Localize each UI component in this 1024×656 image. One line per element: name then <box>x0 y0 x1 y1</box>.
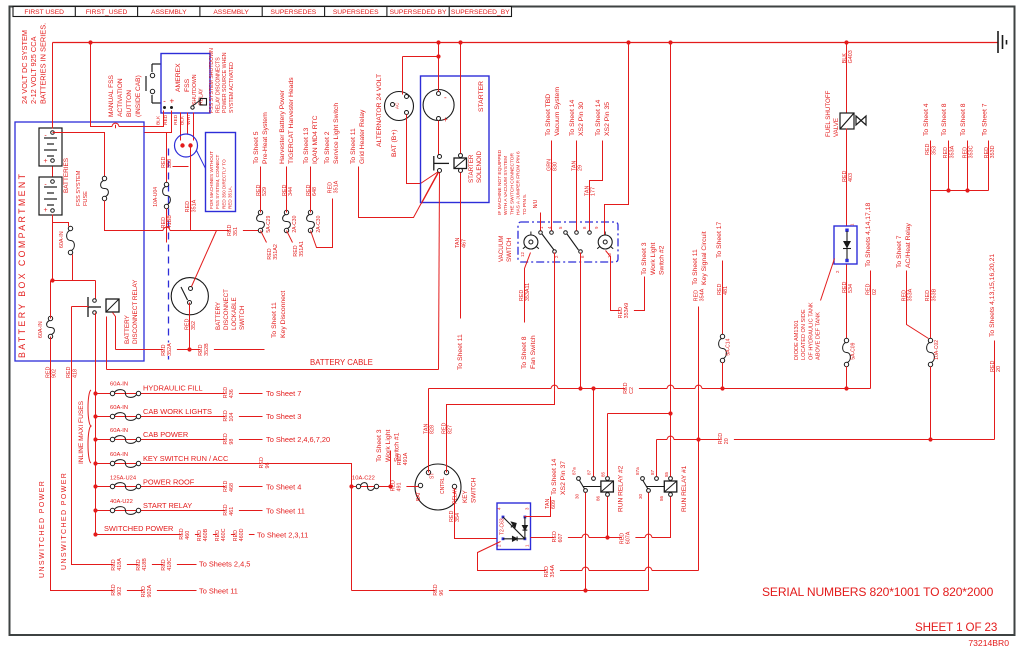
svg-text:ACTIVATION: ACTIVATION <box>117 78 124 117</box>
svg-text:RED: RED <box>179 528 185 539</box>
svg-text:BAT: BAT <box>416 492 422 501</box>
svg-text:RED: RED <box>185 319 191 330</box>
wire key signal vertical <box>698 307 700 571</box>
svg-text:5A-C14: 5A-C14 <box>725 338 731 355</box>
svg-text:To Sheet TBD: To Sheet TBD <box>545 94 552 136</box>
wire RED C2 bus <box>429 388 871 390</box>
wire RED 354A bus <box>478 542 699 571</box>
svg-text:125A-U24: 125A-U24 <box>110 476 137 482</box>
wire RED 353C <box>967 141 969 191</box>
svg-text:SHEET 1 OF 23: SHEET 1 OF 23 <box>915 621 997 634</box>
label unswitched power 1 <box>39 480 46 578</box>
svg-text:IQAN MD4 RTC: IQAN MD4 RTC <box>312 115 319 164</box>
wire TAN 609 <box>525 497 551 517</box>
label to sheet 17 <box>716 222 723 258</box>
svg-text:RED: RED <box>259 457 265 468</box>
wire RED 351A to service light <box>311 199 333 248</box>
svg-text:10A-C02: 10A-C02 <box>934 340 940 360</box>
label RED 352B <box>200 343 214 356</box>
wire bus to relay1 85 <box>670 43 672 477</box>
svg-text:RED: RED <box>984 147 990 158</box>
svg-text:+: + <box>43 158 47 165</box>
junction 5A-C09 <box>844 386 848 390</box>
wire RED 607 bus to relay1 86 <box>531 497 671 538</box>
svg-text:HAS A JUMPER FROM PIN 6: HAS A JUMPER FROM PIN 6 <box>516 151 522 215</box>
vacuum switch rotor x=605.2 <box>598 235 612 249</box>
svg-text:UNSWITCHED POWER: UNSWITCHED POWER <box>39 480 46 578</box>
label to sheet3 work light 1 <box>376 429 401 462</box>
svg-text:87a: 87a <box>571 467 576 475</box>
wire FSS RED out <box>180 113 182 141</box>
svg-text:To Sheets 4,13,15,16,20,21: To Sheets 4,13,15,16,20,21 <box>989 254 996 337</box>
svg-text:60A-IN: 60A-IN <box>110 382 128 388</box>
key pin RELAY <box>452 484 456 488</box>
wire valve to diode <box>846 129 848 227</box>
relay RUN RELAY #2 K3 <box>584 489 588 493</box>
fuse 5A-C09 <box>844 338 848 342</box>
switched power row <box>93 532 97 536</box>
svg-text:RED: RED <box>306 185 312 196</box>
label GRN 830 <box>546 159 558 171</box>
fuse 5A-C29 x=261 <box>258 210 262 214</box>
svg-text:85: 85 <box>664 471 669 477</box>
vacuum switch rotor x=530.9 <box>524 235 538 249</box>
svg-text:RED: RED <box>111 559 117 570</box>
note diode am1301 <box>794 302 822 360</box>
svg-text:CNTRL: CNTRL <box>440 477 446 494</box>
wire C2 to relay2 87 <box>593 389 595 477</box>
label TAN 29 <box>572 161 584 171</box>
svg-text:TAN: TAN <box>545 499 551 509</box>
svg-text:TO PIN 5.: TO PIN 5. <box>522 194 528 215</box>
wire RED 827 CNTRL to vacuum pin2 <box>447 253 555 473</box>
svg-text:351A1: 351A1 <box>299 241 305 257</box>
svg-text:73214BR0: 73214BR0 <box>968 638 1009 648</box>
svg-text:RED: RED <box>842 282 848 293</box>
svg-text:To Sheet 2,4,6,7,20: To Sheet 2,4,6,7,20 <box>266 435 330 444</box>
wire RED 344 <box>286 167 288 213</box>
wire RED 529 <box>260 167 262 213</box>
wire solenoid to battery cable <box>439 173 440 370</box>
svg-text:RED: RED <box>161 157 167 168</box>
svg-text:RED: RED <box>293 245 299 256</box>
label inline maxi fuses <box>78 400 85 464</box>
pin number 8 <box>582 226 587 229</box>
pin number 12 <box>520 252 525 257</box>
svg-text:RUN RELAY #1: RUN RELAY #1 <box>681 465 688 512</box>
wire relay2 coil 86 to RED607 <box>607 497 609 538</box>
wire B+ to starter solenoid <box>407 131 439 184</box>
svg-text:96: 96 <box>439 590 445 596</box>
svg-text:Fan Switch: Fan Switch <box>530 335 537 369</box>
svg-text:RED: RED <box>173 114 179 125</box>
label RED 491 <box>393 482 407 492</box>
wire bus to starter - <box>438 43 440 92</box>
label RED 352A <box>163 343 177 356</box>
wire vacuum pin6 down <box>580 253 582 389</box>
wire switched power <box>96 534 255 536</box>
svg-text:828: 828 <box>430 425 436 434</box>
svg-text:607: 607 <box>558 534 564 543</box>
label RED 902 <box>45 367 57 378</box>
wire B+ down <box>406 115 408 131</box>
svg-text:FUSE: FUSE <box>83 191 89 206</box>
key pin ST <box>426 470 430 474</box>
label harvester battery power <box>279 77 295 164</box>
fss shutdown relay contact <box>200 99 207 106</box>
label lockable switch <box>215 289 246 330</box>
svg-text:529: 529 <box>262 187 268 196</box>
svg-text:FSS SYSTEM SHUTDOWN: FSS SYSTEM SHUTDOWN <box>209 48 215 113</box>
svg-text:SERIAL NUMBERS 820*1001 TO 820: SERIAL NUMBERS 820*1001 TO 820*2000 <box>762 585 994 599</box>
label to sheet 11 key signal <box>692 231 708 285</box>
battery disconnect relay K1 <box>88 297 101 317</box>
label BAT <box>416 492 422 501</box>
svg-text:87: 87 <box>586 469 591 475</box>
svg-text:OF HYDRAULIC TANK: OF HYDRAULIC TANK <box>808 302 814 360</box>
label RED 827 <box>441 423 453 434</box>
svg-text:RED: RED <box>233 530 239 541</box>
wire relay to RED418 <box>72 306 89 308</box>
svg-text:418C: 418C <box>167 558 173 571</box>
svg-text:GRN: GRN <box>546 159 552 171</box>
diode pin 1 <box>525 544 530 547</box>
svg-text:827: 827 <box>448 425 454 434</box>
svg-text:RED: RED <box>842 171 848 182</box>
svg-text:SUPERSEDED_BY: SUPERSEDED_BY <box>451 9 510 16</box>
svg-text:To Sheet 4: To Sheet 4 <box>923 103 930 136</box>
svg-text:460B: 460B <box>203 528 209 541</box>
wire RED 353B down <box>930 191 932 339</box>
vacuum switch pin top x=576.7 <box>575 231 579 235</box>
label amerex fss <box>175 63 191 92</box>
svg-text:177: 177 <box>591 187 597 196</box>
svg-text:+: + <box>169 97 174 106</box>
svg-text:RED: RED <box>925 144 931 155</box>
junction RED 20 <box>928 437 932 441</box>
wire RED 353D <box>988 141 990 191</box>
svg-text:To Sheet 7: To Sheet 7 <box>266 389 301 398</box>
svg-text:To Sheets 2,4,5: To Sheets 2,4,5 <box>199 560 250 569</box>
junction bus x=628 <box>626 40 630 44</box>
svg-text:To Sheet 4: To Sheet 4 <box>266 483 301 492</box>
label battery disconnect relay <box>124 279 139 344</box>
svg-text:THE SWITCH CONNECTOR: THE SWITCH CONNECTOR <box>509 152 515 215</box>
label RED 353A acheat <box>901 288 913 301</box>
svg-text:351A2: 351A2 <box>273 244 279 260</box>
svg-text:LOCATED ON SIDE: LOCATED ON SIDE <box>801 309 807 360</box>
wire RED 353 <box>930 141 932 191</box>
svg-text:353A: 353A <box>949 145 955 158</box>
pin number 4 <box>547 226 552 229</box>
svg-text:2A-C30: 2A-C30 <box>316 215 322 232</box>
svg-text:RED: RED <box>141 586 147 597</box>
svg-text:To Sheet 8: To Sheet 8 <box>941 103 948 136</box>
label RED 351 <box>229 226 243 236</box>
svg-text:60A-IN: 60A-IN <box>110 428 128 434</box>
svg-text:85: 85 <box>600 471 605 477</box>
wire TAN 467 down <box>460 173 462 319</box>
svg-text:351: 351 <box>233 227 239 236</box>
svg-text:RED 351A.: RED 351A. <box>228 186 233 209</box>
label to sheet 11 tan467 <box>457 334 464 370</box>
wire RED 353A9 <box>606 251 645 311</box>
svg-text:353A9: 353A9 <box>624 303 630 319</box>
fuse row KEY SWITCH RUN / ACC <box>93 461 97 465</box>
starter motor M1 <box>423 90 454 121</box>
wire fuse to C2 <box>722 363 724 389</box>
wire grid heater to solenoid <box>359 167 439 218</box>
svg-text:30: 30 <box>574 493 579 499</box>
svg-text:ST: ST <box>430 473 436 479</box>
label To Sheet 4 <box>923 103 930 136</box>
wire bus to solenoid coil <box>460 43 462 154</box>
svg-text:To Sheet 14: To Sheet 14 <box>551 459 558 495</box>
label RED 436 <box>225 388 239 398</box>
junction vacuum pin6 <box>578 386 582 390</box>
battery B2 <box>39 177 62 215</box>
stub RED 491A <box>390 451 392 487</box>
label TAN 828 <box>424 424 436 434</box>
svg-text:RED: RED <box>111 584 117 595</box>
svg-text:RED: RED <box>327 182 333 193</box>
label starter <box>478 81 485 112</box>
fuse row START RELAY <box>93 508 97 512</box>
svg-text:10A-U04: 10A-U04 <box>153 187 159 207</box>
svg-text:XS2 Pin 35: XS2 Pin 35 <box>604 102 611 136</box>
wire branch to 60A-IN fuse <box>53 223 69 227</box>
label RED 351A1 <box>293 241 305 257</box>
svg-text:CAB POWER: CAB POWER <box>143 430 188 439</box>
wire starter + to solenoid <box>438 121 440 155</box>
svg-text:352B: 352B <box>204 343 210 356</box>
svg-text:To Sheet 11: To Sheet 11 <box>457 334 464 370</box>
svg-text:MANUAL FSS: MANUAL FSS <box>108 75 115 117</box>
label RED 354A key signal <box>693 288 705 301</box>
svg-text:460: 460 <box>185 531 191 540</box>
svg-text:RED: RED <box>619 533 625 544</box>
ground symbol <box>998 31 1007 53</box>
svg-text:418: 418 <box>72 369 78 378</box>
label RED 353A <box>943 145 955 158</box>
svg-text:To Sheet 11: To Sheet 11 <box>350 128 357 164</box>
pin number 5 <box>558 226 563 229</box>
svg-text:BLK: BLK <box>842 53 848 64</box>
svg-text:BATTERY: BATTERY <box>215 302 222 330</box>
svg-text:354A: 354A <box>700 288 706 301</box>
label RED 353D <box>984 145 996 158</box>
wire to alternator pin <box>402 57 404 95</box>
svg-text:RED: RED <box>267 248 273 259</box>
svg-text:418B: 418B <box>142 558 148 571</box>
svg-text:TAN: TAN <box>455 238 461 248</box>
wire relay1 87 up <box>656 440 658 477</box>
label RED 353A11 <box>519 283 531 301</box>
svg-text:60A-IN: 60A-IN <box>110 452 128 458</box>
svg-text:351A: 351A <box>191 199 197 212</box>
svg-text:60A-IN: 60A-IN <box>38 321 44 338</box>
svg-text:350: 350 <box>167 159 173 168</box>
svg-text:RED: RED <box>256 185 262 196</box>
svg-text:830: 830 <box>553 162 559 171</box>
key pin BAT <box>418 483 422 487</box>
label RED 351A service <box>327 180 339 193</box>
svg-text:86: 86 <box>659 495 664 501</box>
svg-text:BUTTON: BUTTON <box>126 90 133 117</box>
vacuum switch pin top x=551.6 <box>550 231 554 235</box>
label To Sheet 8 <box>941 103 948 136</box>
svg-text:Key Disconnect: Key Disconnect <box>280 291 287 338</box>
svg-text:To Sheet 7: To Sheet 7 <box>896 235 903 268</box>
svg-text:FSS SYSTEM: FSS SYSTEM <box>76 170 82 206</box>
junction bus x=847 <box>844 40 848 44</box>
svg-text:To Sheet 11: To Sheet 11 <box>199 586 238 595</box>
wire row CAB POWER <box>96 439 263 441</box>
junction bus x=91 <box>88 40 92 44</box>
fuse 10A-U04 <box>164 182 168 186</box>
fuse 2A-C30 x=287 <box>284 210 288 214</box>
svg-text:RED: RED <box>223 504 229 515</box>
svg-text:FIRST_USED: FIRST_USED <box>86 9 128 16</box>
note 24 volt dc system <box>20 23 47 104</box>
wire RED 351 diagonal <box>192 231 217 287</box>
svg-text:FOR MACHINES WITHOUT: FOR MACHINES WITHOUT <box>209 151 214 209</box>
svg-text:RED: RED <box>161 344 167 355</box>
svg-text:20: 20 <box>996 366 1002 372</box>
svg-text:DISCONNECT RELAY: DISCONNECT RELAY <box>132 279 139 344</box>
svg-text:SWITCHED POWER: SWITCHED POWER <box>104 524 173 533</box>
pin number 10 <box>607 253 612 258</box>
label battery box compartment <box>17 172 27 358</box>
fuse 10A-C22 <box>356 484 360 488</box>
svg-text:RED: RED <box>866 284 872 295</box>
label RED 353B <box>925 288 937 301</box>
key switch S4 <box>415 464 461 510</box>
label RED 352 <box>185 319 197 330</box>
label RELAY <box>453 487 459 504</box>
svg-text:Vacuum System: Vacuum System <box>554 87 561 136</box>
svg-text:87a: 87a <box>635 467 640 475</box>
svg-text:RED: RED <box>901 290 907 301</box>
label to sheet 14 pin 35 <box>595 100 611 136</box>
svg-text:BLK: BLK <box>179 115 185 125</box>
callout leader <box>197 151 206 169</box>
svg-text:SWITCH: SWITCH <box>239 306 246 330</box>
wire RED 353A11 <box>525 253 531 323</box>
relay RUN RELAY #1 K4 <box>647 489 651 493</box>
label RED 353 <box>925 144 937 155</box>
wire main positive bus RED <box>53 42 999 44</box>
svg-text:SUPERSEDED BY: SUPERSEDED BY <box>390 9 447 16</box>
wire row START RELAY <box>96 510 263 512</box>
starter enclosure <box>421 76 490 203</box>
svg-text:CAB WORK LIGHTS: CAB WORK LIGHTS <box>143 407 212 416</box>
wire RED 20 up <box>994 341 996 440</box>
svg-text:RED: RED <box>552 531 558 542</box>
svg-text:Pre-Heat System: Pre-Heat System <box>262 112 269 164</box>
label RED 02 <box>866 284 878 295</box>
label RED 403 <box>842 171 854 182</box>
svg-text:FUEL SHUTOFF: FUEL SHUTOFF <box>825 90 832 137</box>
battery disconnect lockable switch S2 <box>171 278 208 315</box>
svg-text:BATTERY: BATTERY <box>124 314 131 344</box>
svg-text:To Sheet 8: To Sheet 8 <box>960 103 967 136</box>
wire TAN 177 <box>590 141 603 231</box>
svg-text:To Sheet 13: To Sheet 13 <box>303 128 310 164</box>
svg-text:IF MACHINE NOT EQUIPPED: IF MACHINE NOT EQUIPPED <box>497 149 503 215</box>
label RED 98 <box>225 435 239 445</box>
svg-text:TAN: TAN <box>572 161 578 171</box>
svg-text:648: 648 <box>312 187 318 196</box>
svg-text:460C: 460C <box>221 528 227 541</box>
svg-text:C2: C2 <box>629 387 635 394</box>
svg-text:XS2 Pin 30: XS2 Pin 30 <box>578 102 585 136</box>
fuel shutoff valve V1 <box>840 113 866 129</box>
wire relay1 30 down <box>648 493 650 591</box>
label BLK G403 <box>842 50 854 63</box>
note box for machines without fss <box>206 133 236 212</box>
svg-text:To Sheet 11: To Sheet 11 <box>271 302 278 338</box>
svg-text:BATTERIES: BATTERIES <box>63 158 70 193</box>
svg-text:RED: RED <box>163 114 169 125</box>
svg-text:To Sheets 4,14,17,18: To Sheets 4,14,17,18 <box>865 203 872 267</box>
svg-text:104: 104 <box>229 413 235 422</box>
svg-text:460D: 460D <box>239 528 245 541</box>
svg-text:TAN: TAN <box>424 424 430 434</box>
svg-text:RED: RED <box>198 344 204 355</box>
label CNTRL <box>440 477 446 494</box>
label N/U <box>533 199 539 208</box>
wire RED 20 bus <box>657 439 995 441</box>
svg-text:SWITCH: SWITCH <box>506 238 513 262</box>
svg-text:5A-C29: 5A-C29 <box>266 215 272 232</box>
svg-text:INLINE MAXI FUSES: INLINE MAXI FUSES <box>78 400 85 464</box>
label RED 104 <box>225 412 239 422</box>
fuse 60A-IN battery feed <box>68 226 72 230</box>
wire row KEY SWITCH RUN / ACC <box>96 463 269 465</box>
AMEREX FSS unit U1 <box>161 54 210 114</box>
fuse row CAB POWER <box>93 437 97 441</box>
svg-text:(INSIDE CAB): (INSIDE CAB) <box>135 75 142 117</box>
wire RED 481 <box>722 261 724 335</box>
svg-text:To Sheet 3: To Sheet 3 <box>266 412 301 421</box>
dashed compartment boundary <box>168 149 170 361</box>
svg-text:FSS SYSTEM, CONNECT: FSS SYSTEM, CONNECT <box>215 154 220 209</box>
svg-text:RED: RED <box>215 530 221 541</box>
stub N/U <box>540 213 542 231</box>
svg-text:-: - <box>163 97 166 106</box>
pin number 1 <box>539 226 544 229</box>
note fss system shutdown relay <box>209 48 235 113</box>
wire RED 353A <box>948 141 950 191</box>
vacuum switch pin top x=565.5 <box>564 231 568 235</box>
fuse row HYDRAULIC FILL <box>93 391 97 395</box>
label RED 534 <box>842 282 854 293</box>
label fss system fuse <box>76 170 89 206</box>
junction bus x=670 <box>668 40 672 44</box>
svg-text:To Sheet 5: To Sheet 5 <box>253 131 260 164</box>
svg-text:SWITCH: SWITCH <box>470 477 477 503</box>
wire row CAB WORK LIGHTS <box>96 416 263 418</box>
svg-text:TAN: TAN <box>584 186 590 196</box>
diode AM1301 D1 <box>834 226 857 264</box>
svg-text:DIODE AM1301: DIODE AM1301 <box>794 320 800 360</box>
svg-text:5A-C09: 5A-C09 <box>850 342 856 359</box>
label to sheet 8 fan switch <box>521 335 537 369</box>
svg-text:ASSEMBLY: ASSEMBLY <box>151 9 187 16</box>
label to sheet 7 ac/heat <box>896 222 912 268</box>
label RED 461 <box>225 506 239 516</box>
